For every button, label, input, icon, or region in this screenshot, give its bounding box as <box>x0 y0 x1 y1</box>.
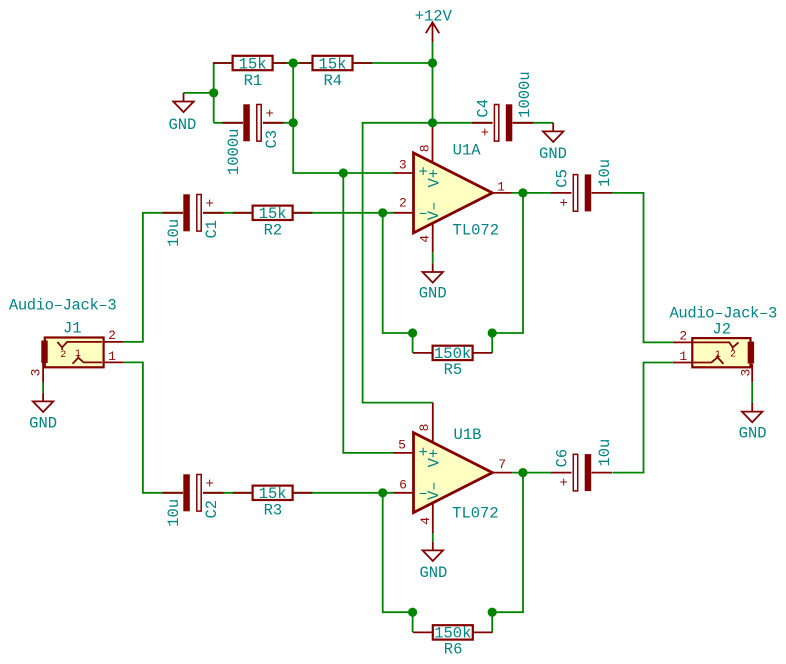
junction node C3 right <box>289 118 298 127</box>
ground symbol C4 <box>539 123 567 163</box>
svg-text:V+: V+ <box>426 449 444 468</box>
svg-text:J2: J2 <box>712 320 731 338</box>
wire C3 row <box>214 122 294 124</box>
svg-text:2: 2 <box>679 328 687 343</box>
svg-text:R4: R4 <box>323 72 342 90</box>
svg-text:TL072: TL072 <box>452 505 499 523</box>
resistor R2 <box>233 205 312 240</box>
svg-text:8: 8 <box>417 144 432 152</box>
junction node pin2 branch <box>378 208 387 217</box>
svg-text:1: 1 <box>497 179 505 194</box>
svg-text:V–: V– <box>425 481 443 500</box>
resistor R4 <box>293 55 372 90</box>
power +12V <box>415 8 453 43</box>
svg-text:3: 3 <box>28 368 43 376</box>
wire C4 row right to GND <box>433 122 554 124</box>
svg-text:4: 4 <box>418 517 433 525</box>
junction node pin3 branch <box>339 168 348 177</box>
svg-text:2: 2 <box>730 349 736 360</box>
connector J1 <box>9 297 123 383</box>
junction node R5 right <box>488 328 497 337</box>
svg-text:GND: GND <box>419 564 447 582</box>
wire U1B feedback down to R6 left <box>383 493 413 633</box>
svg-text:V+: V+ <box>426 169 444 188</box>
capacitor C5 <box>551 159 614 212</box>
wire top rail R1 R4 row <box>214 62 433 64</box>
svg-text:2: 2 <box>108 328 116 343</box>
junction node GND branch <box>209 88 218 97</box>
wire R6 right up and to output column <box>492 473 523 633</box>
svg-text:GND: GND <box>29 415 57 433</box>
svg-text:1000u: 1000u <box>225 129 243 176</box>
resistor R5 <box>413 345 492 379</box>
svg-text:C5: C5 <box>553 169 571 188</box>
wire junction column down to pin3 row <box>293 63 393 173</box>
svg-text:10u: 10u <box>165 499 183 527</box>
svg-text:15k: 15k <box>239 55 267 73</box>
capacitor C1 <box>163 194 224 246</box>
svg-text:1000u: 1000u <box>516 71 534 118</box>
wire U1B pin4 to GND <box>432 533 434 542</box>
svg-text:1: 1 <box>75 349 81 360</box>
capacitor C2 <box>163 474 224 526</box>
svg-text:10u: 10u <box>165 219 183 247</box>
wire U1A feedback down to R5 left <box>383 213 413 353</box>
resistor R1 <box>213 55 292 90</box>
connector J2 <box>669 305 776 383</box>
junction node +12V rail <box>428 58 437 67</box>
svg-text:+: + <box>559 196 567 212</box>
wire J1 pin3 to GND <box>42 382 44 392</box>
svg-text:Audio–Jack–3: Audio–Jack–3 <box>9 297 116 315</box>
wire nub at R1 R4 junction <box>287 62 300 64</box>
svg-text:+12V: +12V <box>415 8 453 26</box>
svg-text:R5: R5 <box>444 361 463 379</box>
svg-text:C6: C6 <box>553 449 571 468</box>
svg-text:1: 1 <box>108 349 116 364</box>
svg-text:GND: GND <box>739 425 767 443</box>
ground symbol U1B pin4 <box>419 542 447 582</box>
svg-text:+: + <box>205 477 213 493</box>
wire R5 right up and to output column <box>492 193 523 353</box>
junction node U1B output <box>518 468 527 477</box>
wire C6 to J2 pin1 <box>612 363 673 473</box>
capacitor C3 <box>223 104 284 175</box>
svg-text:2: 2 <box>60 350 66 361</box>
svg-text:4: 4 <box>417 235 432 243</box>
wire C5 to J2 pin2 <box>612 193 673 343</box>
svg-text:1: 1 <box>715 350 721 361</box>
svg-text:C3: C3 <box>263 130 281 149</box>
svg-text:GND: GND <box>168 116 196 134</box>
svg-text:+: + <box>265 107 273 123</box>
ground symbol left supply <box>168 93 196 134</box>
op-amp U1A <box>394 123 512 253</box>
junction node pin8 rail <box>428 118 437 127</box>
svg-text:R2: R2 <box>264 222 283 240</box>
svg-text:J1: J1 <box>63 320 82 338</box>
svg-text:3: 3 <box>738 369 753 377</box>
resistor R3 <box>233 485 312 520</box>
junction node R6 left <box>408 608 417 617</box>
ground symbol U1A pin4 <box>419 263 447 302</box>
svg-text:R1: R1 <box>244 72 263 90</box>
svg-text:Audio–Jack–3: Audio–Jack–3 <box>669 305 776 323</box>
wire top rail junction down to C4 row <box>432 63 434 123</box>
wire U1B output row to C6 <box>512 472 551 474</box>
junction node R6 right <box>488 608 497 617</box>
wire J2 pin3 to GND <box>751 382 753 403</box>
capacitor C4 <box>472 71 534 141</box>
wire vertical from pin3 row to U1B pin5 <box>343 173 393 453</box>
svg-text:C1: C1 <box>203 220 221 239</box>
svg-text:8: 8 <box>417 424 432 432</box>
svg-text:5: 5 <box>398 438 406 453</box>
svg-text:+: + <box>481 126 489 142</box>
op-amp U1B <box>394 403 513 533</box>
svg-text:10u: 10u <box>596 439 614 467</box>
wire U1A pin4 to GND <box>432 252 434 263</box>
wire left vertical to GND junction <box>213 63 215 123</box>
junction node U1A output <box>518 188 527 197</box>
wire C4 row left segment to U1B pin8 column <box>363 123 433 403</box>
svg-text:R6: R6 <box>444 641 463 659</box>
svg-text:15k: 15k <box>319 55 347 73</box>
svg-text:1: 1 <box>679 349 687 364</box>
wire J1 pin1 down to C2 R3 row <box>123 362 394 492</box>
svg-text:GND: GND <box>419 285 447 303</box>
resistor R6 <box>413 625 492 659</box>
svg-text:GND: GND <box>539 145 567 163</box>
wire C1 R2 row to U1A pin2 <box>123 213 394 342</box>
svg-text:U1A: U1A <box>453 142 482 160</box>
wire U1A output row to C5 <box>512 192 551 194</box>
svg-text:C4: C4 <box>475 99 493 118</box>
capacitor C6 <box>551 439 614 492</box>
svg-text:C2: C2 <box>203 500 221 519</box>
svg-text:15k: 15k <box>259 485 287 503</box>
junction node top rail left <box>289 58 298 67</box>
svg-text:TL072: TL072 <box>453 222 500 240</box>
svg-text:2: 2 <box>399 195 407 210</box>
ground symbol J2 <box>739 403 767 443</box>
wire +12V to top rail junction <box>432 42 434 63</box>
svg-text:+: + <box>205 197 213 213</box>
svg-text:3: 3 <box>399 157 407 172</box>
svg-text:7: 7 <box>498 457 506 472</box>
svg-text:V–: V– <box>425 202 443 221</box>
svg-text:15k: 15k <box>259 205 287 223</box>
junction node R5 left <box>408 328 417 337</box>
svg-text:+: + <box>559 476 567 492</box>
svg-text:10u: 10u <box>596 159 614 187</box>
svg-text:U1B: U1B <box>454 426 482 444</box>
svg-text:6: 6 <box>399 478 407 493</box>
wire GND stub left <box>184 92 214 94</box>
svg-text:R3: R3 <box>264 502 283 520</box>
ground symbol J1 <box>29 393 57 433</box>
junction node pin6 branch <box>378 488 387 497</box>
